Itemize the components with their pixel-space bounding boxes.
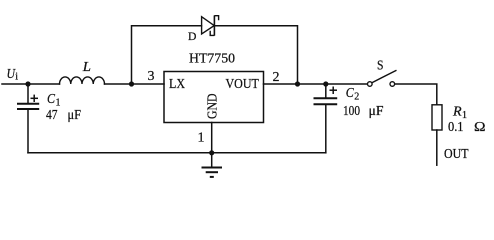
junction output node diode VOUT	[295, 81, 300, 86]
wire input rail left segment	[2, 83, 60, 85]
svg-text:LX: LX	[169, 77, 185, 92]
svg-text:VOUT: VOUT	[226, 77, 260, 92]
svg-text:R: R	[452, 105, 462, 120]
svg-text:1: 1	[56, 98, 61, 109]
wire C1 top lead	[27, 84, 29, 103]
junction node C1 tap	[25, 81, 30, 86]
wire diode cathode to output node and down to VOUT rail	[215, 26, 298, 84]
polarity plus of C1	[31, 95, 39, 102]
diode D Schottky	[202, 15, 219, 35]
svg-text:S: S	[377, 59, 384, 74]
junction boost node L LX diode	[129, 81, 134, 86]
svg-text:1: 1	[198, 131, 205, 146]
switch S	[368, 70, 397, 86]
wire C2 bottom lead	[325, 105, 327, 153]
svg-text:C: C	[47, 92, 56, 107]
svg-text:i: i	[15, 72, 18, 83]
capacitor C2 plates	[314, 98, 338, 104]
inductor L	[60, 77, 105, 84]
svg-text:0.1: 0.1	[448, 120, 464, 135]
svg-text:OUT: OUT	[444, 147, 469, 162]
IC U1 HT7750 body	[164, 72, 264, 123]
svg-text:100: 100	[343, 104, 360, 119]
polarity plus of C2	[330, 87, 338, 95]
svg-text:2: 2	[354, 92, 359, 103]
wire C1 bottom lead	[27, 110, 29, 153]
svg-text:D: D	[188, 29, 197, 43]
svg-text:HT7750: HT7750	[189, 52, 235, 67]
wire ground return bottom rail	[28, 152, 326, 154]
svg-text:3: 3	[148, 69, 155, 84]
svg-text:μF: μF	[68, 108, 82, 123]
wire boost node up to diode anode	[132, 26, 202, 84]
wire pin 1 GND down to ground rail	[211, 123, 213, 153]
svg-text:L: L	[82, 60, 91, 75]
svg-text:Ω: Ω	[474, 120, 486, 135]
svg-text:GND: GND	[206, 94, 221, 120]
svg-text:C: C	[346, 86, 355, 101]
ground symbol	[202, 153, 223, 177]
wire R1 bottom to OUT terminal	[436, 130, 438, 165]
wire switch to corner above R1	[395, 84, 437, 105]
resistor R1 body	[432, 105, 442, 130]
wire VOUT pin 2 to switch	[264, 83, 368, 85]
wire inductor to pin 3 LX	[105, 83, 165, 85]
svg-text:2: 2	[273, 70, 280, 85]
wire C2 top lead	[325, 84, 327, 97]
junction ground node	[209, 150, 214, 155]
junction C2 tap	[323, 81, 328, 86]
svg-text:47: 47	[46, 108, 58, 123]
svg-text:μF: μF	[369, 104, 384, 119]
capacitor C1 plates	[17, 104, 39, 109]
